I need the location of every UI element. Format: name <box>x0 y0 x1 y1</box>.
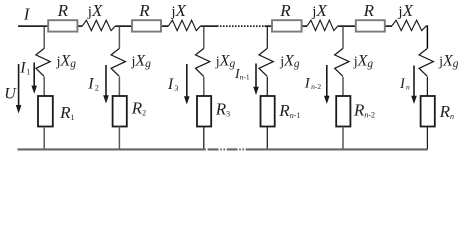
branch n-1: wire box to rail <box>266 127 268 150</box>
branch n-1: inductor jXg <box>259 48 273 76</box>
svg-text:jXg: jXg <box>353 53 374 71</box>
branch n-2: current arrow In-2 <box>326 65 328 97</box>
wire between jX2 and dotted break <box>201 25 217 27</box>
branch 2: inductor jXg2 <box>111 48 125 76</box>
branch 3: wire zig to box <box>203 77 205 96</box>
wire between dotted break and jX3 <box>265 25 308 27</box>
svg-text:I1: I1 <box>19 59 30 76</box>
svg-text:jX: jX <box>87 1 103 20</box>
wire between jX3 and R4 <box>338 25 392 27</box>
branch n-1: resistor Rn-1 <box>261 96 275 127</box>
inductor jX (series section 2) <box>169 20 201 30</box>
wire bottom rail right solid segment <box>253 148 428 150</box>
svg-text:R2: R2 <box>131 99 146 118</box>
wire bottom rail left solid segment <box>18 148 206 150</box>
svg-text:In-2: In-2 <box>304 75 322 91</box>
inductor jX (series section n-1) <box>307 20 338 30</box>
branch 1: node stub <box>43 26 45 48</box>
branch 3: current arrow I3 <box>186 64 188 98</box>
svg-text:jXg: jXg <box>279 53 300 71</box>
wire bottom rail dash-dot omitted segment <box>208 148 253 150</box>
branch 2: wire box to rail <box>118 127 120 150</box>
branch 2: current arrow I2 <box>105 65 107 97</box>
svg-text:R: R <box>279 1 291 20</box>
branch n-2: resistor Rn-2 <box>336 96 350 127</box>
svg-text:R3: R3 <box>215 99 230 118</box>
svg-text:Rn-1: Rn-1 <box>278 101 300 120</box>
svg-text:jX: jX <box>170 1 186 20</box>
branch n: resistor Rn <box>421 96 435 127</box>
branch 1: resistor R1 <box>38 96 53 127</box>
wire between jX1 and R2 <box>116 25 169 27</box>
branch n-2: node stub <box>342 26 344 48</box>
svg-text:jXg: jXg <box>131 53 152 71</box>
wire top-right corner into last branch <box>426 26 427 48</box>
branch 2: wire zig to box <box>118 77 120 96</box>
resistor R (series section n-1) <box>272 20 302 31</box>
resistor R (series section 2) <box>132 20 161 31</box>
svg-text:R1: R1 <box>59 103 74 122</box>
svg-text:Rn-2: Rn-2 <box>353 101 375 120</box>
wire top rail left segment <box>18 25 82 27</box>
resistor R (series section 1) <box>48 20 77 31</box>
branch n-1: current arrow In-1 <box>255 64 257 89</box>
resistor R (series section n) <box>356 20 385 31</box>
branch n-1: node stub <box>266 26 268 48</box>
svg-text:R: R <box>57 1 69 20</box>
svg-text:In: In <box>399 76 410 92</box>
branch 3: resistor R3 <box>197 96 211 127</box>
branch 3: wire box to rail <box>203 127 205 150</box>
svg-text:I3: I3 <box>167 76 179 93</box>
branch n: current arrow In <box>413 66 415 98</box>
wire dotted break (omitted sections) top rail <box>217 25 265 27</box>
svg-text:R: R <box>138 1 150 20</box>
svg-text:Rn: Rn <box>439 102 454 121</box>
svg-text:I2: I2 <box>87 75 99 92</box>
svg-text:R: R <box>363 1 375 20</box>
branch 3: node stub <box>203 26 205 48</box>
inductor jX (series section n) <box>392 20 426 30</box>
svg-text:In-1: In-1 <box>234 67 250 82</box>
svg-text:jX: jX <box>311 1 327 20</box>
branch 1: wire box to rail <box>43 127 45 150</box>
svg-text:jXg: jXg <box>438 53 459 71</box>
branch 1: wire zig to box <box>43 77 45 96</box>
branch n-1: wire zig to box <box>266 77 268 96</box>
branch n: wire box to rail <box>426 127 428 150</box>
svg-text:jXg: jXg <box>215 53 236 71</box>
branch n-2: wire box to rail <box>342 127 344 150</box>
branch 2: node stub <box>118 26 120 48</box>
branch 2: resistor R2 <box>113 96 127 127</box>
branch n: inductor jXg <box>419 48 433 76</box>
svg-text:I: I <box>23 5 31 24</box>
branch n: wire zig to box <box>426 77 428 96</box>
svg-text:jX: jX <box>397 1 413 20</box>
branch 1: current arrow I1 <box>33 63 35 88</box>
branch 3: inductor jXg3 <box>196 48 210 76</box>
branch n-2: wire zig to box <box>342 77 344 96</box>
voltage arrow U <box>18 64 20 106</box>
svg-text:U: U <box>4 85 17 102</box>
svg-text:jXg: jXg <box>56 53 77 71</box>
inductor jX (series section 1) <box>82 20 115 30</box>
branch 1: inductor jXg1 <box>36 48 50 76</box>
branch n-2: inductor jXg <box>335 48 349 76</box>
